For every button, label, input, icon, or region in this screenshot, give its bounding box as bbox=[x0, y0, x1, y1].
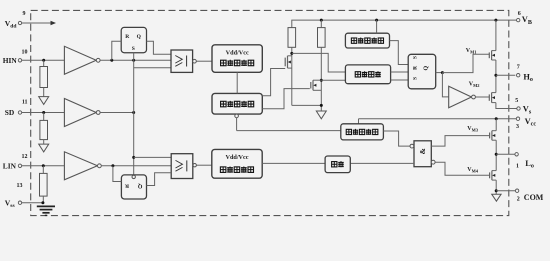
svg-text:S: S bbox=[413, 77, 419, 80]
svg-text:2: 2 bbox=[517, 197, 520, 203]
svg-text:13: 13 bbox=[17, 183, 23, 189]
svg-text:5: 5 bbox=[515, 98, 518, 104]
svg-text:Q: Q bbox=[137, 34, 142, 40]
svg-text:Q: Q bbox=[423, 65, 429, 70]
svg-text:7: 7 bbox=[517, 65, 520, 71]
svg-text:SD: SD bbox=[5, 108, 14, 117]
svg-text:Vdd/Vcc: Vdd/Vcc bbox=[226, 50, 249, 57]
svg-text:9: 9 bbox=[23, 11, 26, 17]
svg-text:&: & bbox=[418, 148, 427, 154]
svg-text:VM3: VM3 bbox=[467, 126, 478, 133]
svg-text:COM: COM bbox=[524, 193, 544, 202]
svg-text:S: S bbox=[413, 56, 419, 59]
svg-text:LIN: LIN bbox=[3, 161, 17, 170]
svg-text:12: 12 bbox=[22, 154, 28, 160]
svg-text:VM1: VM1 bbox=[466, 48, 477, 55]
svg-text:6: 6 bbox=[518, 11, 521, 17]
svg-text:1: 1 bbox=[516, 163, 519, 169]
svg-text:R: R bbox=[413, 66, 419, 70]
svg-text:11: 11 bbox=[22, 100, 28, 106]
svg-text:HIN: HIN bbox=[3, 56, 18, 65]
svg-text:VM4: VM4 bbox=[467, 167, 478, 174]
svg-text:Vdd/Vcc: Vdd/Vcc bbox=[225, 154, 248, 161]
svg-text:10: 10 bbox=[22, 50, 28, 56]
svg-text:3: 3 bbox=[516, 124, 519, 130]
svg-text:Q: Q bbox=[137, 182, 142, 188]
svg-text:VM2: VM2 bbox=[469, 81, 480, 88]
svg-text:S: S bbox=[132, 46, 135, 52]
